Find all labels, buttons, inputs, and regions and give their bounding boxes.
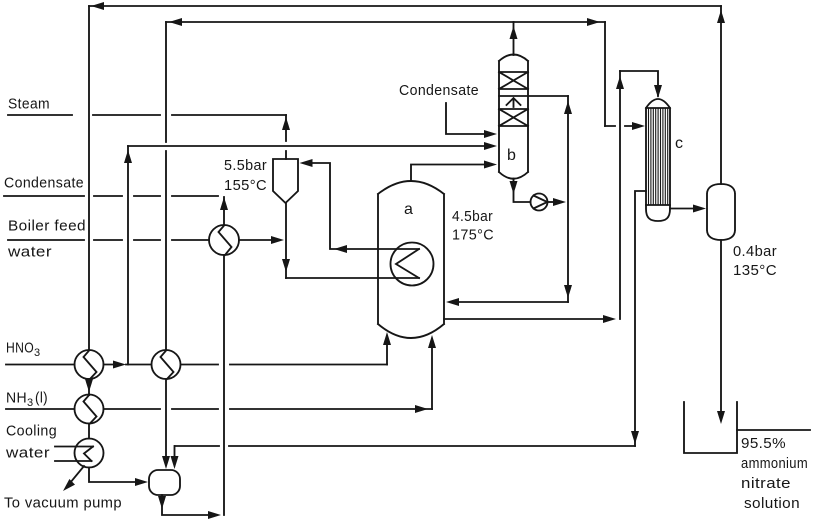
wire evaporator c shell condensate outlet <box>635 191 646 446</box>
product tank open top <box>684 402 737 453</box>
wire vertical x=89 to exchanger train <box>88 6 90 350</box>
wire evaporator c product to separator y=208.5 <box>670 208 693 210</box>
arrow left on header y=22 <box>169 18 182 26</box>
wire separator vapor line x=721 <box>720 6 722 184</box>
column b packing section 1 <box>499 72 528 89</box>
wire circulation riser x=568 <box>567 96 569 302</box>
arrow left circulation into reactor a wall <box>446 298 459 306</box>
wire reactor a product to evaporator riser y=319 <box>444 318 603 320</box>
heating coil chevron <box>396 249 419 278</box>
pump P1 <box>531 194 548 211</box>
arrow down flash pot bottoms <box>158 496 166 509</box>
flash drum 5.5bar separator outline <box>273 159 298 203</box>
svg-text:3: 3 <box>27 397 34 409</box>
evaporator c bottom cap <box>646 205 670 221</box>
wire evaporator c shell inlet y=126 <box>605 125 633 127</box>
svg-text:(l): (l) <box>35 390 48 407</box>
wire vertical x=605 down to evaporator c inlet <box>604 22 606 126</box>
wire cooling water stubs <box>55 447 93 462</box>
wire coil vapor return to drum <box>310 163 419 249</box>
wire flash drum riser and bottoms x=286 <box>285 203 287 278</box>
column b shell <box>499 55 528 179</box>
wire column b top nozzle <box>513 22 515 55</box>
reactor a vessel outline <box>378 181 444 338</box>
wire steam riser from flash drum x=286 <box>285 115 287 159</box>
arrow up NH3 into reactor bottom <box>428 335 436 348</box>
wire steam export line y=115 <box>8 114 286 116</box>
arrow right on NH3 line before corner <box>415 405 428 413</box>
wire HNO3 branch feed to column b y=146 <box>128 145 488 147</box>
svg-text:4.5bar: 4.5bar <box>452 208 493 225</box>
svg-text:solution: solution <box>744 495 800 512</box>
arrow down evaporator condensate x=635 <box>631 431 639 444</box>
svg-text:3: 3 <box>34 347 41 359</box>
arrow right pump discharge <box>553 198 566 206</box>
arrow left into flash drum side <box>300 159 313 167</box>
wire column b overhead header y=22 <box>166 21 605 23</box>
arrow up circulation riser to column b <box>564 101 572 114</box>
wire circulation return into reactor a y=302 <box>459 301 568 303</box>
svg-text:95.5%: 95.5% <box>741 435 786 452</box>
vertical link E3 to E5 <box>88 424 90 439</box>
arrow down separator bottoms into tank <box>717 411 725 424</box>
wire tank outlet level line y=430 <box>737 429 810 431</box>
svg-text:To vacuum pump: To vacuum pump <box>4 495 122 512</box>
svg-text:Condensate: Condensate <box>399 82 479 99</box>
arrow right on header toward evaporator <box>587 18 600 26</box>
heat exchanger E1 HNO3 preheater <box>75 350 104 379</box>
wire vertical x=166 from header to exchanger E2 <box>165 22 167 350</box>
heating coil circle in reactor a <box>391 243 434 286</box>
arrow right into evaporator c shell <box>632 122 645 130</box>
svg-text:0.4bar: 0.4bar <box>733 243 777 260</box>
svg-text:b: b <box>507 147 516 164</box>
arrow right BFW into drum riser <box>271 236 284 244</box>
arrow right condensate feed into column b <box>484 130 497 138</box>
svg-text:155°C: 155°C <box>224 177 267 194</box>
arrow down on drum bottoms x=286 <box>282 259 290 272</box>
wire evaporator tube feed top <box>620 71 658 96</box>
arrow up column b top nozzle <box>510 26 518 39</box>
wire boiler feed water line y=240 <box>8 239 209 241</box>
arrow up on steam riser <box>282 117 290 130</box>
arrow up on condensate riser x=224 <box>220 197 228 210</box>
condenser E5 cooling water <box>75 439 104 468</box>
arrow up on evaporator riser <box>616 76 624 89</box>
wire condenser E5 outlet to flash pot <box>89 468 135 483</box>
arrow down E2 line into flash pot <box>162 456 170 469</box>
arrow up on HNO3 branch riser <box>124 150 132 163</box>
wire vertical x=224 condensate riser <box>223 197 225 515</box>
flash pot vessel <box>149 470 180 495</box>
svg-text:c: c <box>675 135 683 152</box>
wire condensate export line y=196 <box>4 195 218 197</box>
column b internal up arrow glyph <box>507 98 521 107</box>
svg-text:nitrate: nitrate <box>741 475 791 492</box>
wire HNO3 riser into reactor a <box>386 345 388 365</box>
arrow up HNO3 into reactor bottom <box>383 332 391 345</box>
vertical link E1 to E3 <box>88 379 90 395</box>
arrow down column b bottoms <box>510 181 518 194</box>
svg-text:water: water <box>7 244 52 261</box>
wire condensate return line y=446 <box>175 445 635 447</box>
svg-text:ammonium: ammonium <box>741 455 808 472</box>
svg-text:175°C: 175°C <box>452 227 494 244</box>
wire condensate label drop to column b <box>446 103 488 134</box>
arrow right flash pot bottoms to riser <box>208 511 221 519</box>
svg-text:HNO: HNO <box>6 340 34 357</box>
wire NH3 feed line y=409 <box>6 408 432 410</box>
evaporator c shell <box>646 99 670 205</box>
wire HNO3 branch riser x=128 <box>127 146 129 365</box>
wire pump P1 discharge <box>548 201 555 203</box>
heat exchanger E3 NH3 vaporiser <box>75 395 104 424</box>
arrow down into evaporator c top <box>654 85 662 98</box>
wire top recycle vapor line y=6 <box>89 5 721 7</box>
wire column b bottoms to pump <box>514 179 531 203</box>
arrow down circulation to reactor a <box>564 285 572 298</box>
arrow right reactor product to riser <box>603 315 616 323</box>
arrow down condensate return into flash pot <box>171 456 179 469</box>
evaporator c tube hatching <box>649 109 668 204</box>
arrow left on coil vapor line y=249 <box>334 245 347 253</box>
wire reactor a top vapor to column b y=164.5 <box>411 165 488 182</box>
wire to vacuum pump diagonal <box>70 466 84 483</box>
arrow left at top recycle corner <box>91 2 104 10</box>
wire HNO3 feed line y=364.5 <box>6 364 387 366</box>
wire BFW exchanger outlet to flash drum <box>239 239 271 241</box>
svg-text:Cooling: Cooling <box>6 423 57 440</box>
svg-text:Condensate: Condensate <box>4 175 84 192</box>
heat exchanger E2 <box>152 350 181 379</box>
arrow right reactor vapor into column b <box>484 161 497 169</box>
wire drum bottoms to coil y=278 <box>286 277 419 279</box>
wire flash pot bottoms <box>162 495 208 515</box>
arrow up on separator vapor riser x=721 <box>717 10 725 23</box>
wire drop into flash pot x=174.5 <box>174 446 176 456</box>
arrow right E5 outlet into flash pot <box>135 478 148 486</box>
svg-text:water: water <box>5 445 50 462</box>
wire evaporator riser x=620 <box>619 71 621 319</box>
arrow right on HNO3 line after E1 <box>113 361 126 369</box>
arrow down E1 to E3 link <box>85 379 93 392</box>
column b packing section 2 <box>499 109 528 126</box>
svg-text:Boiler feed: Boiler feed <box>8 218 86 235</box>
separator 0.4bar vessel <box>707 184 735 240</box>
wire column b side tray line y=96 <box>499 95 568 97</box>
svg-text:a: a <box>404 201 413 218</box>
wire vertical x=166 from E2 to flash pot <box>165 379 167 456</box>
svg-text:NH: NH <box>6 390 27 407</box>
arrow right evaporator product into separator <box>693 205 706 213</box>
svg-text:Steam: Steam <box>8 96 50 113</box>
wire separator bottoms to tank <box>720 240 722 411</box>
heat exchanger E4 BFW preheater <box>209 225 239 255</box>
svg-text:5.5bar: 5.5bar <box>224 157 267 174</box>
svg-text:135°C: 135°C <box>733 262 777 279</box>
wire NH3 riser into reactor a <box>431 348 433 409</box>
arrow right HNO3 branch into column b <box>484 142 497 150</box>
arrow diagonal to vacuum pump <box>63 479 75 491</box>
